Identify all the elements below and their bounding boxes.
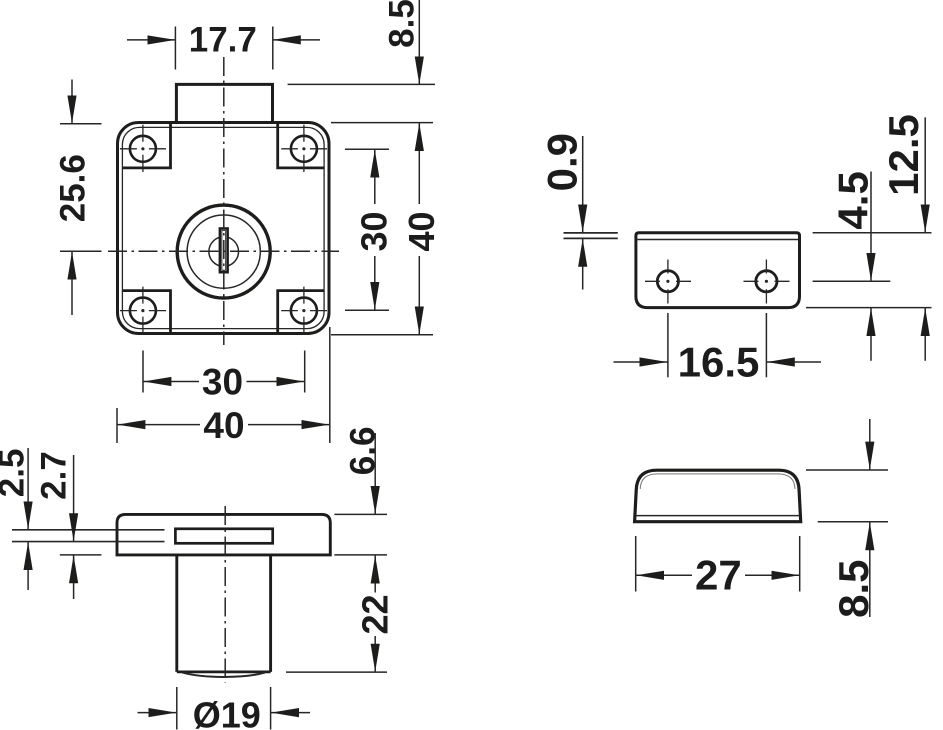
corner boss box bottom-right bbox=[278, 291, 324, 333]
dimension 16.5 (plate hole spacing) bbox=[614, 313, 822, 386]
flange plate bbox=[117, 514, 330, 555]
svg-text:8.5: 8.5 bbox=[830, 560, 877, 618]
cap inner bottom line bbox=[636, 515, 800, 517]
svg-text:2.5: 2.5 bbox=[0, 449, 32, 498]
svg-text:30: 30 bbox=[354, 211, 395, 251]
dimension 25.6 (left side) bbox=[53, 80, 101, 316]
dimension 17.7 (tab width) bbox=[127, 21, 320, 70]
dimension 4.5 (hole line to plate bottom) bbox=[813, 171, 891, 361]
plate hole right crosshair bbox=[744, 260, 790, 304]
svg-text:27: 27 bbox=[695, 552, 742, 599]
svg-text:30: 30 bbox=[202, 362, 243, 403]
svg-text:25.6: 25.6 bbox=[53, 154, 92, 222]
lock body outer rounded square bbox=[118, 123, 330, 334]
screw hole top-right bbox=[291, 136, 317, 162]
svg-text:0.9: 0.9 bbox=[538, 133, 585, 191]
dimension 27 (cap width) bbox=[636, 536, 800, 599]
svg-text:16.5: 16.5 bbox=[678, 339, 760, 386]
hole crosshair bottom-left bbox=[120, 287, 166, 334]
strike plate outline bbox=[636, 233, 800, 308]
cover cap outline bbox=[635, 470, 801, 522]
dimension 2.7 (left) bbox=[35, 451, 102, 599]
hole crosshair bottom-right bbox=[281, 287, 327, 334]
screw hole bottom-right bbox=[291, 298, 317, 324]
svg-text:6.6: 6.6 bbox=[344, 427, 383, 476]
dimension Ø19 (cylinder diameter, bottom) bbox=[138, 687, 311, 730]
side view centerline bbox=[224, 506, 226, 683]
dimension 8.5 (cap height, right) bbox=[806, 419, 888, 618]
dimension 6.6 (flange thickness, right) bbox=[334, 427, 387, 555]
plate hole left crosshair bbox=[645, 260, 691, 304]
latch slot in flange bbox=[175, 529, 272, 544]
dimension 2.5 (slot height, left) bbox=[0, 448, 32, 590]
vertical centerline front view bbox=[223, 57, 225, 345]
svg-text:17.7: 17.7 bbox=[189, 21, 257, 60]
svg-text:8.5: 8.5 bbox=[383, 0, 422, 48]
svg-text:Ø19: Ø19 bbox=[193, 695, 261, 730]
cylinder inner circle bbox=[187, 215, 260, 288]
corner boss box top-right bbox=[278, 124, 324, 168]
svg-text:12.5: 12.5 bbox=[880, 114, 927, 196]
cylinder housing bottom edge bbox=[177, 672, 271, 677]
corner boss box top-left bbox=[123, 124, 171, 168]
hole crosshair top-left bbox=[120, 125, 166, 172]
horizontal centerline front view bbox=[60, 250, 339, 252]
slot reference lines left bbox=[12, 530, 165, 542]
dimension 30 (hole spacing, right side) bbox=[345, 149, 395, 310]
screw hole bottom-left bbox=[130, 298, 156, 324]
dimension 0.9 (plate thickness) bbox=[538, 133, 618, 289]
screw hole top-left bbox=[130, 136, 156, 162]
plate hole right bbox=[756, 271, 777, 292]
cylinder housing sides bbox=[177, 555, 271, 672]
dimension 40 (body height, right side) bbox=[331, 123, 442, 335]
key slot bbox=[220, 229, 228, 273]
svg-text:40: 40 bbox=[203, 405, 244, 446]
cap inner top line bbox=[640, 474, 795, 489]
dimension 40 (body width, bottom, shared with side view) bbox=[117, 327, 330, 446]
dimension 30 (hole spacing, bottom) bbox=[143, 351, 305, 403]
corner boss box bottom-left bbox=[123, 291, 171, 333]
dimension 12.5 (plate height) bbox=[806, 114, 932, 361]
cylinder outer circle bbox=[177, 205, 270, 298]
dimension 22 (cylinder length, right) bbox=[286, 556, 396, 673]
lock body inner chamfer line bbox=[122, 127, 324, 328]
key hub circle bbox=[209, 237, 239, 267]
svg-text:40: 40 bbox=[401, 211, 442, 251]
svg-text:22: 22 bbox=[355, 594, 396, 634]
svg-text:2.7: 2.7 bbox=[35, 451, 74, 500]
strike plate inner top line bbox=[637, 239, 798, 241]
latch tab on top of lock body bbox=[176, 84, 272, 122]
plate hole left bbox=[657, 271, 678, 292]
hole crosshair top-right bbox=[281, 125, 327, 172]
dimension 8.5 (tab height, top right) bbox=[288, 0, 435, 84]
svg-text:4.5: 4.5 bbox=[830, 171, 877, 229]
